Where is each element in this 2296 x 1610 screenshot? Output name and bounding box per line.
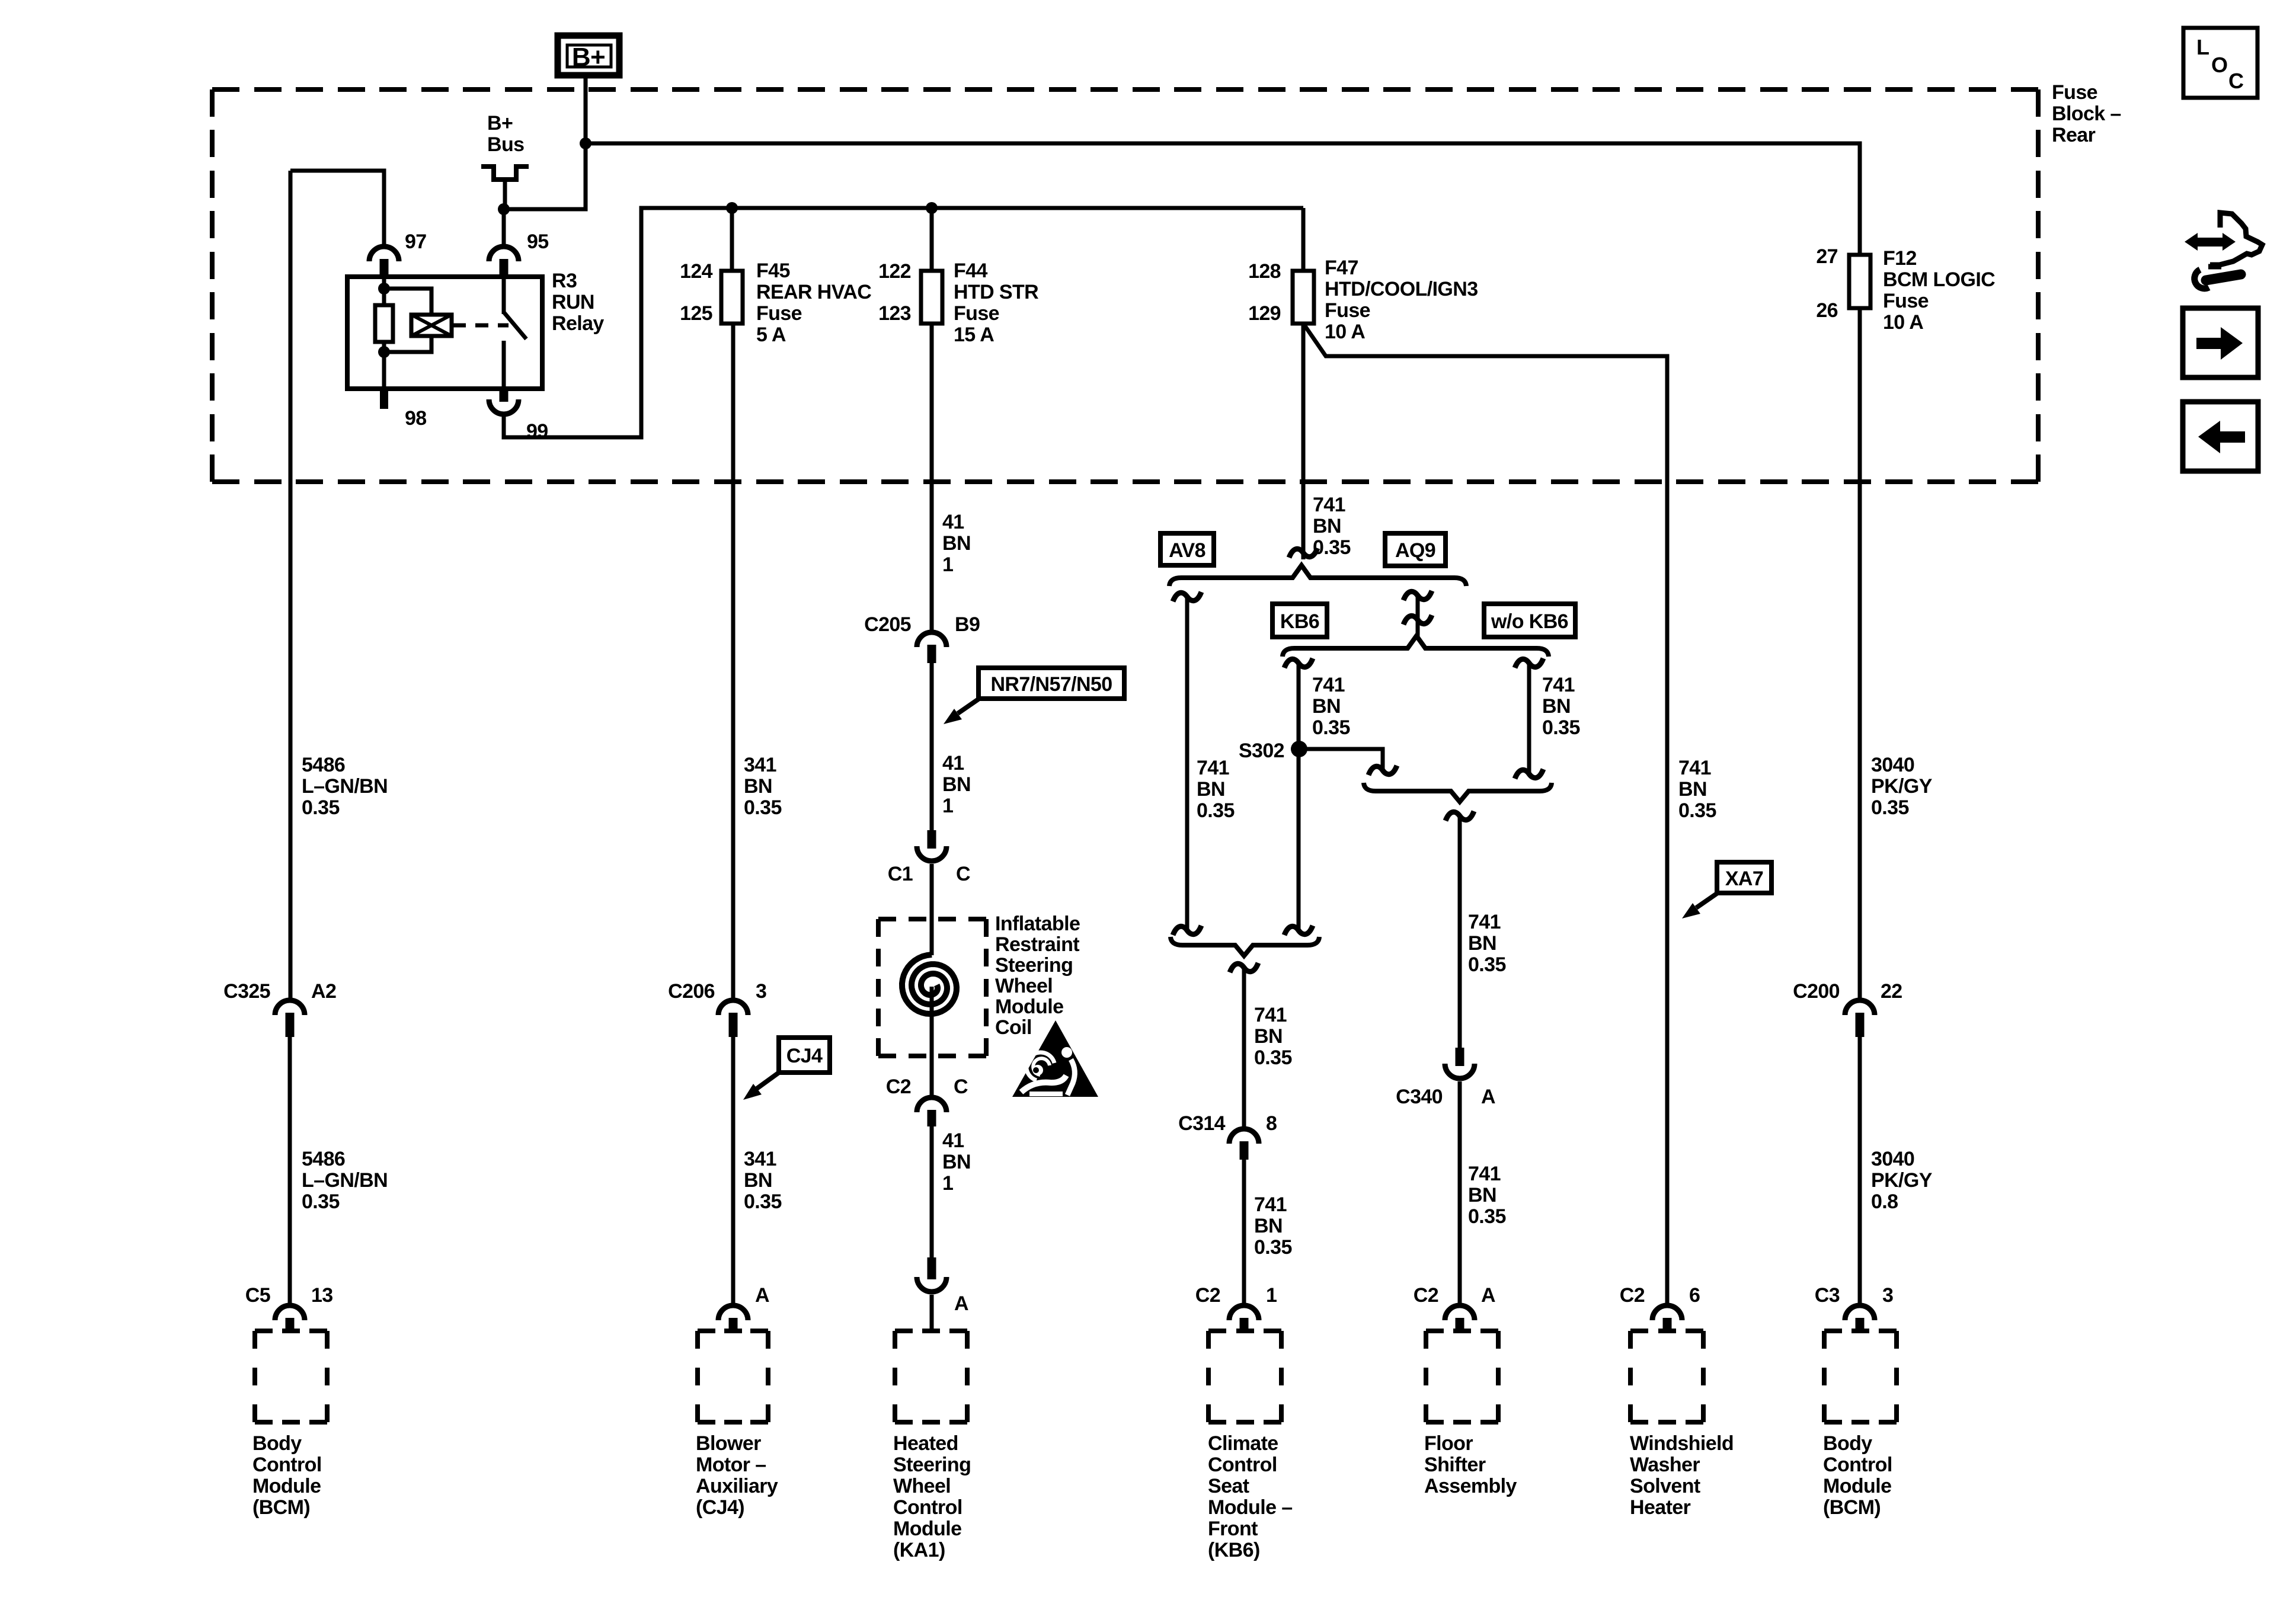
- svg-text:(KA1): (KA1): [893, 1539, 945, 1561]
- connector C5 pin 13: [275, 1305, 305, 1320]
- module Floor Shifter Assembly: [1426, 1331, 1498, 1422]
- svg-text:(CJ4): (CJ4): [696, 1496, 744, 1519]
- svg-text:REAR HVAC: REAR HVAC: [756, 281, 871, 303]
- svg-text:Module: Module: [252, 1475, 321, 1497]
- svg-text:741: 741: [1197, 757, 1229, 779]
- wire into KA1 module: [930, 1295, 934, 1332]
- svg-text:BN: BN: [1313, 515, 1341, 537]
- relay R3 case: [347, 277, 542, 389]
- svg-text:C: C: [2228, 69, 2244, 93]
- connector C1 pin C: [917, 846, 946, 861]
- junction F44 tap: [926, 202, 938, 214]
- LOC reference box: [2183, 28, 2257, 98]
- svg-text:Relay: Relay: [552, 312, 604, 335]
- svg-text:Shifter: Shifter: [1424, 1454, 1486, 1476]
- svg-text:Wheel: Wheel: [893, 1475, 951, 1497]
- svg-text:Auxiliary: Auxiliary: [696, 1475, 778, 1497]
- clockspring spiral: [902, 955, 957, 1014]
- svg-text:13: 13: [311, 1284, 333, 1307]
- svg-text:Rear: Rear: [2052, 124, 2096, 146]
- svg-text:Climate: Climate: [1208, 1432, 1278, 1455]
- wire w/o KB6 branch: [1527, 665, 1531, 774]
- wire coil parallel branch: [384, 289, 431, 315]
- svg-text:Inflatable: Inflatable: [995, 913, 1080, 935]
- svg-text:5486: 5486: [302, 754, 345, 776]
- svg-text:C200: C200: [1793, 980, 1840, 1003]
- merge brace to climate: [1171, 937, 1319, 956]
- svg-text:741: 741: [1678, 757, 1711, 779]
- svg-text:0.35: 0.35: [1468, 1205, 1506, 1228]
- option label AQ9: [1385, 533, 1446, 566]
- svg-text:Fuse: Fuse: [2052, 81, 2097, 104]
- svg-text:C: C: [954, 1076, 968, 1098]
- junction relay coil bottom: [378, 346, 390, 358]
- svg-text:5 A: 5 A: [756, 324, 786, 346]
- wire merged to C314: [1242, 969, 1246, 1126]
- svg-text:C3: C3: [1815, 1284, 1840, 1307]
- connector C340 pin A: [1445, 1064, 1475, 1078]
- svg-text:0.35: 0.35: [744, 796, 782, 819]
- svg-text:BN: BN: [942, 1151, 971, 1173]
- svg-text:F12: F12: [1883, 247, 1917, 270]
- connector floor C2 pin A: [1445, 1305, 1475, 1320]
- svg-text:L–GN/BN: L–GN/BN: [302, 775, 388, 798]
- svg-text:3040: 3040: [1871, 1148, 1914, 1170]
- svg-text:Floor: Floor: [1424, 1432, 1473, 1455]
- wire circuit 41 segment 2: [930, 663, 934, 830]
- pointer CJ4 to wire: [757, 1071, 781, 1089]
- module Windshield Washer Solvent Heater: [1630, 1331, 1703, 1422]
- svg-text:Control: Control: [1823, 1454, 1892, 1476]
- module Body Control Module right: [1824, 1331, 1897, 1422]
- wire circuit 5486 lower: [288, 1037, 292, 1303]
- svg-text:0.35: 0.35: [1313, 536, 1351, 559]
- svg-text:0.35: 0.35: [1197, 799, 1235, 822]
- svg-text:26: 26: [1816, 299, 1838, 322]
- svg-text:AV8: AV8: [1169, 539, 1205, 562]
- svg-text:10 A: 10 A: [1883, 311, 1923, 334]
- diagnostic icon double arrow: [2185, 233, 2198, 251]
- svg-text:0.35: 0.35: [1678, 799, 1716, 822]
- option label w/o KB6: [1484, 604, 1575, 637]
- svg-text:0.35: 0.35: [1254, 1236, 1292, 1259]
- break symbol F47 wire: [1289, 548, 1318, 558]
- svg-text:PK/GY: PK/GY: [1871, 1169, 1933, 1192]
- svg-text:Steering: Steering: [893, 1454, 971, 1476]
- SRS warning triangle: [1012, 1020, 1098, 1097]
- wire AQ9 to split: [1416, 622, 1420, 640]
- fuse F47: [1293, 271, 1314, 324]
- svg-text:C2: C2: [1195, 1284, 1220, 1307]
- svg-text:BN: BN: [942, 532, 971, 555]
- relay suppression resistor: [375, 305, 393, 342]
- relay coil element: [411, 315, 452, 336]
- svg-text:AQ9: AQ9: [1395, 539, 1435, 562]
- svg-text:C340: C340: [1396, 1086, 1443, 1108]
- svg-text:1: 1: [942, 553, 953, 576]
- connector C314 pin 8: [1229, 1129, 1259, 1144]
- connector C325 pin A2: [275, 1000, 305, 1015]
- svg-text:NR7/N57/N50: NR7/N57/N50: [990, 673, 1112, 696]
- svg-text:5486: 5486: [302, 1148, 345, 1170]
- svg-text:KB6: KB6: [1280, 610, 1319, 633]
- junction bus-bar / relay feed: [498, 203, 510, 215]
- connector KA1 pin A: [917, 1277, 946, 1292]
- connector washer C2 pin 6: [1652, 1305, 1682, 1320]
- svg-text:BN: BN: [1254, 1025, 1283, 1048]
- pin 97 connector: [369, 247, 399, 261]
- svg-text:Block –: Block –: [2052, 103, 2121, 125]
- svg-text:1: 1: [1266, 1284, 1277, 1307]
- power feed B+ terminal box: [558, 36, 619, 75]
- SRS coil dashed box: [878, 919, 986, 1056]
- wire circuit 41 segment 1: [930, 324, 934, 630]
- svg-text:Body: Body: [1823, 1432, 1872, 1455]
- junction relay coil top: [378, 283, 390, 295]
- svg-text:Control: Control: [1208, 1454, 1277, 1476]
- svg-text:C325: C325: [223, 980, 270, 1003]
- svg-text:C206: C206: [668, 980, 715, 1003]
- svg-text:95: 95: [527, 231, 549, 253]
- svg-text:6: 6: [1689, 1284, 1700, 1307]
- pin 98 stub: [380, 389, 388, 409]
- fuse block - rear dashed boundary: [212, 89, 2038, 482]
- forward arrow box: [2183, 308, 2258, 377]
- svg-text:(BCM): (BCM): [252, 1496, 310, 1519]
- svg-text:Module: Module: [995, 996, 1063, 1018]
- svg-text:Steering: Steering: [995, 954, 1073, 977]
- svg-text:BN: BN: [1197, 778, 1225, 801]
- module Body Control Module left: [255, 1331, 327, 1422]
- module Heated Steering Wheel Control Module: [895, 1331, 967, 1422]
- svg-text:C314: C314: [1178, 1112, 1226, 1135]
- svg-text:Wheel: Wheel: [995, 975, 1053, 997]
- svg-text:Body: Body: [252, 1432, 302, 1455]
- svg-text:C2: C2: [1620, 1284, 1645, 1307]
- svg-text:Heated: Heated: [893, 1432, 958, 1455]
- svg-text:BCM LOGIC: BCM LOGIC: [1883, 268, 1995, 291]
- option label CJ4: [779, 1038, 830, 1073]
- svg-text:O: O: [2211, 53, 2227, 77]
- connector blower pin A: [718, 1305, 748, 1320]
- svg-text:Assembly: Assembly: [1424, 1475, 1517, 1497]
- svg-text:B+: B+: [572, 43, 605, 72]
- wire circuit 5486 upper: [289, 171, 293, 998]
- svg-text:C2: C2: [1414, 1284, 1438, 1307]
- svg-text:Fuse: Fuse: [1883, 290, 1929, 312]
- svg-text:Module –: Module –: [1208, 1496, 1293, 1519]
- break symbol w/o KB6 branch: [1515, 658, 1543, 668]
- svg-text:Control: Control: [252, 1454, 322, 1476]
- svg-text:97: 97: [405, 231, 427, 253]
- svg-text:0.8: 0.8: [1871, 1190, 1898, 1213]
- break symbol merged climate: [1230, 963, 1258, 972]
- wire KB6 branch to S302: [1297, 665, 1301, 749]
- wire C314 to C2: [1242, 1160, 1246, 1303]
- wire F47 feed: [1302, 208, 1306, 271]
- connector C3 pin 3: [1845, 1305, 1875, 1320]
- svg-text:10 A: 10 A: [1325, 321, 1365, 343]
- svg-text:BN: BN: [744, 775, 772, 798]
- svg-text:22: 22: [1881, 980, 1902, 1003]
- pin 95 connector: [489, 247, 519, 261]
- wire merged to C340: [1458, 818, 1462, 1048]
- option label AV8: [1160, 533, 1214, 565]
- fuse F44: [921, 271, 942, 324]
- svg-text:41: 41: [942, 1129, 964, 1152]
- svg-text:128: 128: [1248, 260, 1281, 283]
- svg-text:BN: BN: [744, 1169, 772, 1192]
- wire circuit 341 upper: [731, 324, 736, 998]
- back arrow box: [2183, 402, 2258, 471]
- svg-text:BN: BN: [1254, 1215, 1283, 1237]
- wire S302 branch right: [1299, 749, 1383, 769]
- svg-text:HTD/COOL/IGN3: HTD/COOL/IGN3: [1325, 278, 1478, 300]
- svg-text:B+: B+: [487, 112, 513, 135]
- svg-text:C205: C205: [864, 613, 911, 636]
- module Climate Control Seat Module: [1208, 1331, 1281, 1422]
- svg-text:0.35: 0.35: [1871, 796, 1909, 819]
- svg-text:Motor –: Motor –: [696, 1454, 766, 1476]
- wire circuit 3040 upper: [1858, 308, 1862, 998]
- break symbol AV8 branch: [1173, 592, 1201, 601]
- svg-text:341: 341: [744, 754, 776, 776]
- svg-text:A2: A2: [311, 980, 336, 1003]
- wire circuit 41 segment 3: [930, 864, 934, 955]
- module Blower Motor - Auxiliary: [698, 1331, 768, 1422]
- svg-text:w/o KB6: w/o KB6: [1491, 610, 1568, 633]
- relay coil branch wire: [382, 277, 386, 308]
- svg-text:R3: R3: [552, 270, 577, 292]
- break symbol AQ9 branch end: [1403, 615, 1432, 625]
- svg-text:Blower: Blower: [696, 1432, 761, 1455]
- diagnostic icon outline: [2210, 213, 2262, 265]
- break symbol KB6 end: [1284, 926, 1313, 935]
- splice S302: [1291, 741, 1307, 757]
- svg-text:Fuse: Fuse: [1325, 299, 1370, 322]
- junction F45 tap: [726, 202, 738, 214]
- option label XA7: [1717, 862, 1771, 893]
- wire S302 down: [1297, 749, 1301, 929]
- svg-text:741: 741: [1542, 674, 1575, 696]
- break symbol AV8 branch end: [1173, 926, 1201, 935]
- svg-text:3040: 3040: [1871, 754, 1914, 776]
- svg-text:1: 1: [942, 1172, 953, 1195]
- svg-text:129: 129: [1248, 302, 1281, 325]
- svg-text:BN: BN: [1312, 695, 1341, 718]
- wire relay output to switched bus: [504, 208, 1303, 437]
- wire F44 feed: [930, 208, 934, 271]
- svg-text:Front: Front: [1208, 1518, 1258, 1540]
- svg-text:741: 741: [1254, 1193, 1287, 1216]
- svg-text:Solvent: Solvent: [1630, 1475, 1700, 1497]
- svg-text:Windshield: Windshield: [1630, 1432, 1734, 1455]
- svg-text:3: 3: [756, 980, 766, 1003]
- svg-text:HTD STR: HTD STR: [954, 281, 1038, 303]
- split brace AV8/AQ9: [1169, 565, 1466, 586]
- svg-text:41: 41: [942, 752, 964, 774]
- break symbol merged floor: [1446, 811, 1474, 821]
- wire circuit 41 segment 4: [930, 1126, 934, 1257]
- option label KB6: [1272, 604, 1327, 637]
- svg-text:0.35: 0.35: [302, 1190, 340, 1213]
- svg-text:0.35: 0.35: [1542, 716, 1580, 739]
- relay switch: [502, 277, 506, 314]
- svg-text:Bus: Bus: [487, 133, 524, 156]
- svg-text:L: L: [2196, 35, 2209, 59]
- svg-text:(KB6): (KB6): [1208, 1539, 1260, 1561]
- svg-text:741: 741: [1468, 1163, 1501, 1185]
- svg-text:F44: F44: [954, 260, 987, 282]
- svg-text:Control: Control: [893, 1496, 962, 1519]
- svg-text:Module: Module: [893, 1518, 961, 1540]
- svg-text:0.35: 0.35: [744, 1190, 782, 1213]
- svg-text:Coil: Coil: [995, 1016, 1032, 1039]
- svg-text:A: A: [1481, 1086, 1495, 1108]
- svg-text:Fuse: Fuse: [954, 302, 999, 325]
- svg-text:0.35: 0.35: [1312, 716, 1350, 739]
- svg-text:741: 741: [1468, 911, 1501, 933]
- diagnostic icon wrench: [2206, 274, 2241, 280]
- svg-text:A: A: [755, 1284, 769, 1307]
- wire circuit 341 lower: [731, 1037, 736, 1303]
- svg-text:RUN: RUN: [552, 291, 594, 313]
- svg-text:0.35: 0.35: [1468, 953, 1506, 976]
- wire B+ drop to relay pin 95: [504, 75, 586, 244]
- wire through coil: [930, 987, 934, 1095]
- svg-text:741: 741: [1312, 674, 1345, 696]
- fuse F45: [721, 271, 743, 324]
- svg-text:Heater: Heater: [1630, 1496, 1691, 1519]
- svg-text:Module: Module: [1823, 1475, 1891, 1497]
- connector C205 pin B9: [917, 632, 946, 647]
- svg-text:A: A: [954, 1292, 968, 1315]
- svg-text:C: C: [956, 863, 970, 885]
- svg-text:Fuse: Fuse: [756, 302, 802, 325]
- wire AV8 branch: [1185, 598, 1189, 929]
- svg-text:98: 98: [405, 407, 427, 430]
- wire AQ9 branch: [1416, 597, 1420, 620]
- svg-text:741: 741: [1254, 1004, 1287, 1026]
- svg-text:L–GN/BN: L–GN/BN: [302, 1169, 388, 1192]
- svg-text:BN: BN: [1468, 932, 1496, 955]
- svg-text:341: 341: [744, 1148, 776, 1170]
- split brace KB6/woKB6: [1283, 636, 1549, 657]
- svg-text:BN: BN: [1468, 1184, 1496, 1206]
- svg-text:PK/GY: PK/GY: [1871, 775, 1933, 798]
- svg-text:C2: C2: [886, 1076, 911, 1098]
- pointer NR7 to wire: [958, 697, 981, 713]
- wire circuit 3040 lower: [1858, 1037, 1862, 1303]
- svg-text:125: 125: [680, 302, 712, 325]
- svg-text:C5: C5: [245, 1284, 270, 1307]
- fuse F12: [1849, 255, 1870, 308]
- merge brace to floor shifter: [1364, 783, 1552, 802]
- svg-text:15 A: 15 A: [954, 324, 994, 346]
- svg-text:8: 8: [1266, 1112, 1277, 1135]
- svg-text:(BCM): (BCM): [1823, 1496, 1881, 1519]
- svg-text:A: A: [1481, 1284, 1495, 1307]
- junction B+ bus tap: [580, 137, 591, 149]
- svg-text:122: 122: [878, 260, 911, 283]
- svg-text:27: 27: [1816, 245, 1838, 268]
- svg-text:BN: BN: [1678, 778, 1707, 801]
- option label NR7/N57/N50: [978, 668, 1124, 699]
- pin 99 connector: [489, 399, 519, 414]
- svg-text:1: 1: [942, 795, 953, 817]
- svg-text:BN: BN: [942, 773, 971, 796]
- svg-text:XA7: XA7: [1725, 868, 1763, 890]
- svg-text:B9: B9: [955, 613, 980, 636]
- svg-text:124: 124: [680, 260, 713, 283]
- svg-text:F45: F45: [756, 260, 790, 282]
- B+ Bus bar symbol: [481, 164, 495, 169]
- svg-text:CJ4: CJ4: [786, 1045, 823, 1067]
- svg-text:Restraint: Restraint: [995, 933, 1079, 956]
- wire C340 to C2: [1458, 1081, 1462, 1303]
- connector C206 pin 3: [718, 1000, 748, 1015]
- wire F45 feed: [730, 208, 734, 271]
- svg-text:Seat: Seat: [1208, 1475, 1249, 1497]
- svg-text:123: 123: [878, 302, 911, 325]
- svg-text:BN: BN: [1542, 695, 1571, 718]
- pointer XA7 to wire: [1696, 892, 1719, 908]
- break symbol KB6 branch: [1284, 658, 1313, 668]
- svg-text:3: 3: [1882, 1284, 1893, 1307]
- wire F47 output: [1302, 324, 1306, 559]
- connector climate C2 pin 1: [1229, 1305, 1259, 1320]
- connector C200 pin 22: [1845, 1000, 1875, 1015]
- wire F47 to washer: [1303, 324, 1667, 1303]
- svg-text:0.35: 0.35: [302, 796, 340, 819]
- wire B+ unswitched bus to F12: [586, 143, 1860, 255]
- svg-text:F47: F47: [1325, 257, 1358, 279]
- connector C2 pin C heated: [917, 1097, 946, 1112]
- svg-text:S302: S302: [1239, 740, 1284, 762]
- break symbol w/o KB6 branch end: [1515, 769, 1543, 779]
- svg-text:741: 741: [1313, 494, 1345, 516]
- break symbol AQ9 branch: [1403, 591, 1432, 600]
- svg-text:C1: C1: [888, 863, 913, 885]
- relay actuator dashed link: [453, 324, 509, 328]
- svg-text:0.35: 0.35: [1254, 1046, 1292, 1069]
- break symbol S302 branch: [1368, 766, 1397, 775]
- wire relay pin 97 feed: [290, 171, 384, 244]
- svg-text:Washer: Washer: [1630, 1454, 1700, 1476]
- svg-text:41: 41: [942, 511, 964, 533]
